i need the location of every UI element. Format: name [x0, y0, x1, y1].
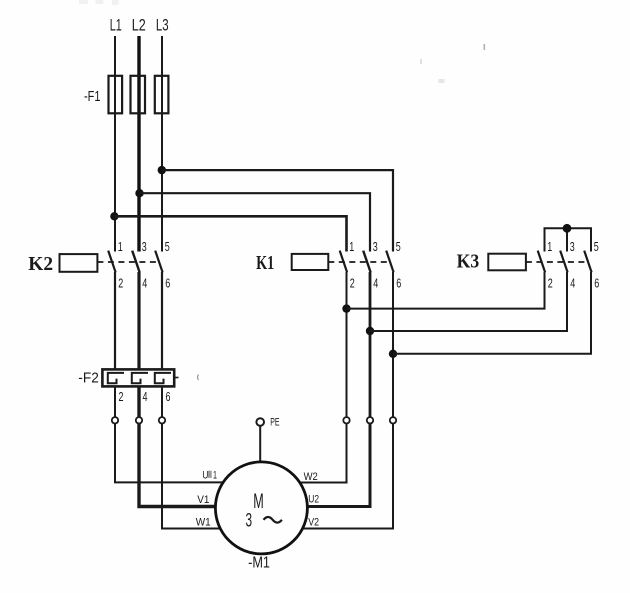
svg-text:3: 3 [142, 239, 147, 254]
node junction L1 tap [110, 212, 118, 220]
wire K1 output to K3 input [393, 272, 591, 354]
svg-text:4: 4 [142, 276, 147, 291]
wire F2 pole to terminal V1 [137, 386, 140, 417]
svg-text:K3: K3 [457, 252, 480, 273]
wire F2 pole to terminal U1 [114, 386, 116, 417]
svg-text:-M1: -M1 [248, 555, 270, 572]
wire K1 output to K3 input [347, 272, 545, 309]
contactor K3 contact blade 3-4 [560, 251, 567, 273]
svg-text:4: 4 [570, 276, 575, 291]
contactor K2 mechanical link [97, 261, 157, 263]
node junction L2 tap [135, 189, 143, 197]
svg-text:5: 5 [594, 239, 599, 254]
svg-text:V1: V1 [197, 494, 209, 506]
svg-text:1: 1 [349, 239, 354, 254]
terminal V2 [390, 417, 396, 423]
svg-text:K2: K2 [28, 254, 53, 275]
svg-text:6: 6 [594, 276, 599, 291]
svg-text:L3: L3 [156, 16, 169, 35]
wire terminal to motor W2 [300, 424, 347, 483]
svg-text:6: 6 [166, 389, 171, 404]
svg-text:PE: PE [270, 417, 279, 429]
svg-text:L2: L2 [132, 16, 146, 35]
terminal W1 [159, 417, 165, 423]
svg-text:-F1: -F1 [84, 88, 101, 105]
wire terminal to motor W1 [162, 424, 220, 529]
wire terminal to motor V1 [139, 424, 216, 507]
svg-text:3: 3 [373, 239, 378, 254]
contactor K3 mechanical link [526, 261, 585, 263]
overload relay -F2 [78, 369, 178, 386]
terminal PE [256, 418, 264, 426]
contactor K2 coil [60, 254, 98, 272]
wire K1 pole 4 down to motor terminal [369, 272, 372, 417]
terminal W2 [343, 417, 349, 423]
wire K1 pole 6 down to motor terminal [392, 272, 394, 417]
wire L3 tap to K1 pole 5 [162, 170, 393, 251]
svg-text:3: 3 [570, 239, 575, 254]
fuse -F1 (3 cartridges) [84, 76, 168, 114]
svg-text:6: 6 [396, 276, 401, 291]
svg-text:M: M [253, 490, 263, 513]
contactor K1 contact blade 3-4 [363, 251, 370, 273]
svg-text:-F2: -F2 [78, 371, 99, 387]
wire K3 star bridge middle riser [566, 228, 568, 251]
wire K2 pole 4 to F2 [137, 272, 140, 369]
wire L3 phase down to K2 pole 5 [161, 36, 163, 252]
motor AC tilde [264, 517, 282, 523]
node star point [563, 224, 572, 233]
svg-text:U: U [202, 470, 208, 482]
terminal U2 [367, 417, 373, 423]
svg-text:2: 2 [118, 276, 123, 291]
terminal V1 [136, 417, 142, 423]
wire K3 star bridge [545, 228, 592, 251]
svg-text:1: 1 [547, 239, 552, 254]
svg-text:V2: V2 [308, 517, 319, 529]
wire L1 phase down to K2 pole 1 [114, 36, 116, 252]
svg-text:5: 5 [396, 239, 401, 254]
wire PE to motor [259, 426, 261, 462]
svg-text:W2: W2 [304, 471, 318, 483]
wire F2 pole to terminal W1 [161, 386, 163, 417]
svg-text:U2: U2 [308, 494, 319, 506]
contactor K3 coil [488, 254, 526, 271]
node junction K1 pole 2 / K3 [342, 304, 350, 312]
svg-text:2: 2 [350, 276, 355, 291]
terminal U1 [112, 417, 118, 423]
svg-text:K1: K1 [256, 253, 274, 274]
node junction K1 pole 6 / K3 [389, 350, 397, 358]
node junction K1 pole 4 / K3 [366, 327, 374, 335]
svg-text:5: 5 [165, 239, 170, 254]
motor -M1 body [215, 462, 307, 554]
node junction L3 tap [158, 166, 166, 174]
svg-text:2: 2 [548, 276, 553, 291]
svg-text:1: 1 [213, 470, 217, 482]
svg-text:4: 4 [373, 276, 378, 291]
wire K2 pole 6 to F2 [161, 272, 163, 369]
wire L2 tap to K1 pole 3 [140, 193, 371, 251]
contactor K1 mechanical link [328, 261, 388, 263]
svg-text:3: 3 [246, 509, 253, 531]
contactor K3 contact blade 5-6 [584, 251, 591, 273]
wire terminal to motor V2 [303, 424, 394, 529]
contactor K1 coil [292, 254, 329, 270]
svg-text:6: 6 [165, 276, 170, 291]
wire L1 tap to K1 pole 1 [114, 216, 346, 251]
wire L2 phase down to K2 pole 3 [137, 36, 140, 252]
contactor K2 contact blade 1-2 [108, 251, 115, 273]
contactor K1 contact blade 5-6 [386, 251, 393, 273]
contactor K1 contact blade 1-2 [340, 251, 347, 273]
svg-text:L1: L1 [110, 16, 122, 35]
wire K1 output to K3 input [370, 272, 567, 331]
wire terminal to motor U1 [115, 424, 223, 483]
wire terminal to motor U2 [307, 424, 370, 507]
contactor K3 contact blade 1-2 [538, 251, 545, 273]
svg-text:W1: W1 [196, 517, 211, 529]
svg-text:1: 1 [118, 239, 123, 254]
svg-text:2: 2 [119, 389, 124, 404]
svg-text:4: 4 [143, 389, 148, 404]
contactor K2 contact blade 5-6 [155, 251, 162, 273]
wire K1 pole 2 down to motor terminal [346, 272, 348, 417]
wire K2 pole 2 to F2 [114, 272, 116, 369]
contactor K2 contact blade 3-4 [132, 251, 139, 273]
